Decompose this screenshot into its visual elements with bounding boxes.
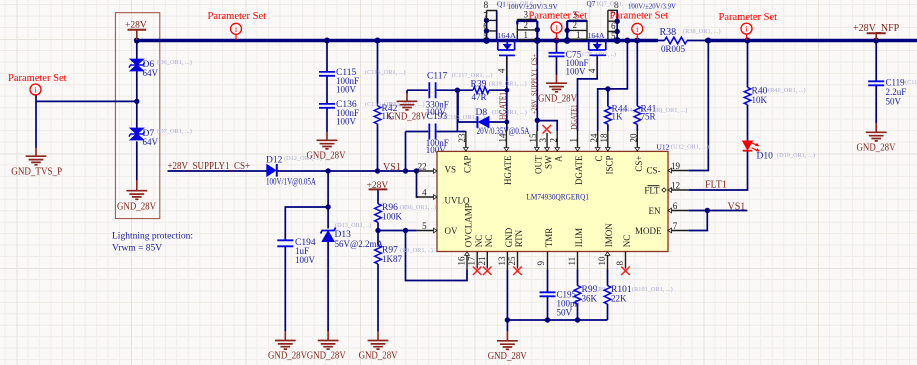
svg-text:8: 8 [615,261,625,266]
wire C193 left drop to VS1 [405,132,407,172]
Q1 MOSFET body [498,41,515,56]
svg-text:D8: D8 [476,108,488,118]
wire ILIM to R99 [577,270,579,321]
svg-text:14: 14 [498,133,508,142]
svg-text:1K87: 1K87 [382,254,402,264]
svg-text:(R38_OR1, ...): (R38_OR1, ...) [683,28,721,35]
svg-text:GND_28V: GND_28V [117,201,157,212]
capacitor C194 [277,238,316,265]
svg-text:+28V_SUPPLY1_CS+: +28V_SUPPLY1_CS+ [168,161,251,172]
power +28V_NFP [853,23,900,40]
svg-text:GND_28V: GND_28V [488,351,528,362]
svg-text:1: 1 [576,30,581,40]
svg-text:7: 7 [673,221,678,231]
ground stems dark red [36,75,876,341]
svg-text:36K: 36K [582,294,598,304]
resistor R39 [471,80,527,103]
TVS diode D6 [129,59,192,78]
svg-text:TMR: TMR [544,228,554,248]
wire C119 column [875,42,877,124]
svg-text:(R40_OR1, ...): (R40_OR1, ...) [768,87,806,94]
svg-text:100V: 100V [566,67,587,77]
ground GND_28V (C194) [275,341,296,350]
svg-text:17: 17 [467,256,477,266]
svg-text:Lightning protection:: Lightning protection: [112,232,193,242]
svg-text:MODE: MODE [635,226,662,236]
wire R38 leads [656,40,707,42]
wire D6 column [136,41,138,129]
svg-text:SW: SW [544,155,554,169]
svg-text:OUT: OUT [534,155,544,174]
svg-text:64V: 64V [143,68,159,78]
svg-text:3: 3 [538,138,548,143]
svg-text:50V: 50V [886,97,902,107]
svg-text:(C117_OR1, ...): (C117_OR1, ...) [452,72,493,79]
svg-text:HGATE1: HGATE1 [498,92,508,120]
svg-text:R38: R38 [660,27,677,38]
wire R96 R97 OV node [378,222,417,245]
wire C117 row [407,89,473,91]
U12 pin 4 (UVLO) [417,188,470,206]
LED D10 [743,141,815,162]
resistor R99 [574,285,605,304]
wire D13 column [327,171,329,332]
wire GND_TVS_P drop [35,101,37,148]
ground GND_28V (C75) [546,83,567,92]
capacitor C195 [540,290,580,318]
wire C117 ground stem [406,90,408,93]
svg-text:VS1: VS1 [728,201,746,212]
svg-text:LM74930QRGERQ1: LM74930QRGERQ1 [527,192,590,202]
wire +28V to R96 [377,189,379,203]
resistor R101 [604,285,673,304]
svg-text:6: 6 [611,21,616,31]
svg-text:4: 4 [497,68,507,73]
capacitor C115 [319,68,406,95]
transistor Q7 [567,0,676,76]
capacitor C193 [426,112,485,155]
svg-text:100V: 100V [336,117,357,127]
svg-text:10: 10 [597,256,607,266]
svg-text:7: 7 [483,10,488,20]
wire R97 to ground [377,264,379,332]
U12 pin 2 (A) [548,131,563,162]
svg-text:2.2uF: 2.2uF [886,87,907,97]
wire C194 branch [285,207,328,332]
U12 pin 13 (GND) [497,227,514,270]
resistor R40 [744,87,805,106]
svg-text:ILIM: ILIM [574,228,584,248]
Parameter Set directive 1 [208,11,267,40]
resistor R96 [375,203,436,222]
diode D12 [266,155,322,187]
TVS diode D7 [129,128,192,147]
U12 pin 1 (DGATE) [569,131,585,185]
svg-text:Parameter Set: Parameter Set [529,10,588,21]
zener D13 [321,222,384,249]
wire C column pin24 [598,42,628,131]
svg-text:0R005: 0R005 [661,44,686,54]
svg-text:OV: OV [445,226,458,236]
wire D10 to FLT1 [688,151,747,190]
U12 pin 23 (CAP) [457,131,473,173]
svg-text:13: 13 [497,256,507,266]
U12 pin 9 (TMR) [536,228,554,271]
svg-text:6: 6 [483,21,488,31]
svg-text:FLT: FLT [644,186,660,196]
U12 pin 19 (CS-) [646,161,688,176]
svg-text:(R101_OR1, ...): (R101_OR1, ...) [632,286,673,293]
U12 pin 24 (C) [589,131,604,162]
wire net +28V_SUPPLY1_CS+ / VS1 row [168,170,417,172]
svg-text:9: 9 [536,261,546,266]
svg-text:GND: GND [504,227,514,247]
svg-text:2: 2 [524,20,529,30]
wire R44 to ISCP [607,89,609,131]
svg-text:GND_28V: GND_28V [268,351,308,362]
svg-text:NC: NC [474,235,484,248]
capacitor C119 [868,78,917,107]
svg-text:NC: NC [622,235,632,248]
svg-text:+28V: +28V [367,181,389,191]
svg-text:100V: 100V [336,85,357,95]
svg-text:DGATE: DGATE [574,155,584,185]
svg-text:D12: D12 [266,156,283,166]
resistor R41 [634,105,687,125]
svg-text:(D7_OR1, ...): (D7_OR1, ...) [157,128,192,135]
shunt resistor R38 [660,27,721,54]
svg-text:19: 19 [671,161,681,171]
svg-text:23: 23 [457,133,467,143]
svg-text:C119: C119 [886,78,906,88]
svg-text:GND_28V: GND_28V [388,112,428,123]
wire UVLO riser [417,171,419,197]
diode D8 [476,108,530,136]
wire bus +28V left segment [137,39,658,43]
svg-text:VS1: VS1 [383,162,401,173]
svg-text:Q7: Q7 [587,0,596,8]
svg-text:GND_28V: GND_28V [307,151,347,162]
wire Parameter Set left to TVS node [36,94,137,101]
wire bottom ground rail [507,319,607,321]
wire EN MODE tie [688,211,707,231]
svg-text:GND_TVS_P: GND_TVS_P [11,167,62,178]
svg-text:(D13_OR1, ..): (D13_OR1, ..) [335,222,371,229]
wire DGATE1 path [578,56,598,131]
svg-text:5: 5 [611,31,616,41]
U12 pin 6 (EN) [649,201,689,216]
svg-text:+28V_SUPPLY1_CS+: +28V_SUPPLY1_CS+ [531,54,539,115]
U12 pin 7 (MODE) [635,221,688,236]
svg-text:100V/±20V/3.9V: 100V/±20V/3.9V [628,2,677,11]
ground GND_28V (C117) [397,101,418,110]
ground GND_28V (C119) [866,132,887,141]
capacitor C75 [549,51,617,77]
svg-text:CAP: CAP [463,156,473,174]
svg-text:100K: 100K [382,212,403,222]
ground GND_28V (D13) [318,341,339,350]
ground GND_28V (R97) [368,341,389,350]
U12 pin 15 (OUT) [528,131,544,174]
svg-text:22: 22 [418,162,427,172]
Q7 MOSFET body [589,41,606,56]
wire CS- riser [688,42,708,171]
wire C115 column [326,41,328,133]
svg-text:10K: 10K [752,95,768,105]
svg-text:(D6_OR1, ...): (D6_OR1, ...) [157,59,192,66]
svg-text:Parameter Set: Parameter Set [208,11,267,22]
U12 pin 3 (SW) no-connect [538,125,553,169]
svg-text:D10: D10 [757,152,774,162]
U12 pin 21 (NC) no-connect [477,235,494,275]
svg-text:VS: VS [445,165,457,175]
svg-text:U12: U12 [657,142,670,151]
wire IMON to R101 [607,270,609,321]
svg-text:164A: 164A [588,31,606,40]
svg-text:(D10_OR1, ...): (D10_OR1, ...) [777,152,815,159]
wire R42 column [377,41,379,172]
power +28V (R96) [367,181,389,191]
svg-text:12: 12 [671,181,680,191]
ground GND_28V (U12 pin13) [497,341,518,350]
svg-text:47R: 47R [472,92,487,102]
Parameter Set directive (left) [8,73,67,95]
svg-text:24: 24 [589,133,599,143]
wire CAP riser [456,90,458,131]
Q1 source pin comb (pins 3,2,1) [517,20,537,40]
Q7 drain pin comb (pins 8,7,6,5) [608,10,618,40]
svg-text:C117: C117 [427,72,447,82]
svg-text:100V/1V@0.05A: 100V/1V@0.05A [266,177,316,187]
Parameter Set directive 4 [719,12,778,40]
Q7 gate pin 4 [596,55,598,76]
svg-text:1: 1 [569,138,579,143]
svg-text:164A: 164A [497,31,517,40]
U12 pin 8 (NC) no-connect [615,235,632,275]
svg-text:22K: 22K [611,294,627,304]
power +28V (TVS box) [125,21,147,41]
Q1 gate pin 4 [506,55,508,76]
svg-text:(R39_OR1, ...): (R39_OR1, ...) [489,81,527,88]
ground GND_28V (C136) [317,140,338,149]
svg-text:20: 20 [628,133,638,143]
resistor R42 [374,101,424,124]
svg-text:100V: 100V [295,255,316,265]
svg-text:EN: EN [649,206,661,216]
resistor R97 [375,245,433,264]
svg-text:21: 21 [477,257,487,266]
svg-text:(Q7_OR1, ...): (Q7_OR1, ...) [597,1,632,8]
svg-text:C: C [594,156,604,162]
wire HGATE1 vertical [506,56,508,131]
wire R39 D8 to HGATE [458,90,507,122]
wire TMR to C195 [547,270,549,321]
U12 pin 10 (IMON) [597,223,614,270]
wire R40 column [747,42,749,141]
svg-text:4: 4 [422,188,427,198]
svg-text:+28V: +28V [125,21,147,31]
svg-text:(C11: (C11 [905,79,917,86]
wire +28V_SUPPLY1_CS+ drop to OUT and A [537,42,557,131]
svg-text:(R96_OR1, ..): (R96_OR1, ..) [400,204,436,211]
svg-text:CS+: CS+ [634,156,644,172]
svg-text:(R)_OR1, ...): (R)_OR1, ...) [654,107,687,114]
svg-text:Vrwm = 85V: Vrwm = 85V [112,244,162,254]
svg-text:25: 25 [507,256,517,266]
svg-text:16: 16 [457,256,467,266]
svg-text:(C115_OR1, ...): (C115_OR1, ...) [365,69,406,76]
svg-text:DGATE1: DGATE1 [569,105,579,130]
wire R41 to CS+ [636,42,638,131]
svg-text:5: 5 [483,31,488,41]
svg-text:11: 11 [567,257,577,266]
svg-text:56V@2.2mA: 56V@2.2mA [335,239,384,249]
svg-text:RTN: RTN [514,229,524,247]
U12 pin 17 (NC) no-connect [467,235,484,275]
wire D7 to ground [136,141,138,180]
svg-text:HGATE: HGATE [503,155,513,185]
svg-text:6: 6 [673,201,678,211]
Q1 drain pin comb (pins 8,7,6,5) [487,11,498,40]
U12 pin 16 (OVCLAMP) [457,203,474,270]
transistor Q1 [483,1,558,77]
wire ground stem pin13 [506,320,508,332]
svg-text:4: 4 [587,68,597,73]
U12 pin 12 (FLT) [644,181,688,196]
Q7 source pin comb (pins 3,2,1) [569,20,587,39]
U12 pin 25 (RTN) no-connect [507,229,524,275]
svg-text:Q1: Q1 [497,1,506,9]
svg-text:GND_28V: GND_28V [307,351,347,362]
svg-text:GND_28V: GND_28V [857,143,897,154]
ground GND_TVS_P [26,156,47,165]
svg-text:R39: R39 [471,80,487,90]
U12 pin 18 (ISCP) [599,131,614,175]
U12 pin 22 (VS) [417,162,456,175]
svg-text:15: 15 [528,133,538,143]
svg-text:5: 5 [422,221,427,231]
svg-text:2: 2 [548,138,558,143]
wire bus +28V right segment [705,39,917,43]
svg-text:ISCP: ISCP [604,156,614,175]
svg-text:50V: 50V [557,308,573,318]
svg-text:IMON: IMON [604,223,614,247]
svg-text:Parameter Set: Parameter Set [610,11,669,22]
wire OVCLAMP loop [406,231,468,281]
svg-text:A: A [554,155,564,162]
svg-text:FLT1: FLT1 [705,180,727,191]
U12 pin 14 (HGATE) [498,131,513,185]
svg-text:(R9_OR1, ..): (R9_OR1, ..) [400,247,433,254]
svg-text:GND_28V: GND_28V [359,351,399,362]
Parameter Set directive 3 [610,11,669,41]
svg-text:GND_28V: GND_28V [538,94,578,105]
svg-text:18: 18 [599,133,609,143]
svg-text:OVCLAMP: OVCLAMP [464,203,474,247]
svg-text:(U12_OR1, ...): (U12_OR1, ...) [671,144,709,151]
U12 pin 5 (OV) [417,221,458,236]
wire C75 stem [556,42,558,75]
wire C193 row [406,131,466,133]
Parameter Set directive 2 [529,10,588,40]
wire EN VS1 [688,210,747,212]
svg-text:CS-: CS- [646,166,660,176]
wire GND pin13 drop [506,270,508,321]
ground GND_28V (TVS box) [126,191,147,200]
svg-text:64V: 64V [143,137,159,147]
U12 pin 11 (ILIM) [567,228,584,270]
svg-text:2: 2 [573,20,578,30]
svg-text:NC: NC [484,235,494,248]
TVS protection section box [115,13,159,219]
U12 pin 20 (CS+) [628,131,643,172]
capacitor C136 [319,100,406,127]
resistor R44 [605,105,648,125]
capacitor C117 [426,72,493,118]
svg-text:1: 1 [524,30,529,40]
svg-text:+28V_NFP: +28V_NFP [853,23,900,34]
op-amp / controller IC U12 LM74930QRGERQ1 [437,142,709,251]
svg-text:Parameter Set: Parameter Set [719,12,778,23]
svg-text:Parameter Set: Parameter Set [8,73,67,84]
